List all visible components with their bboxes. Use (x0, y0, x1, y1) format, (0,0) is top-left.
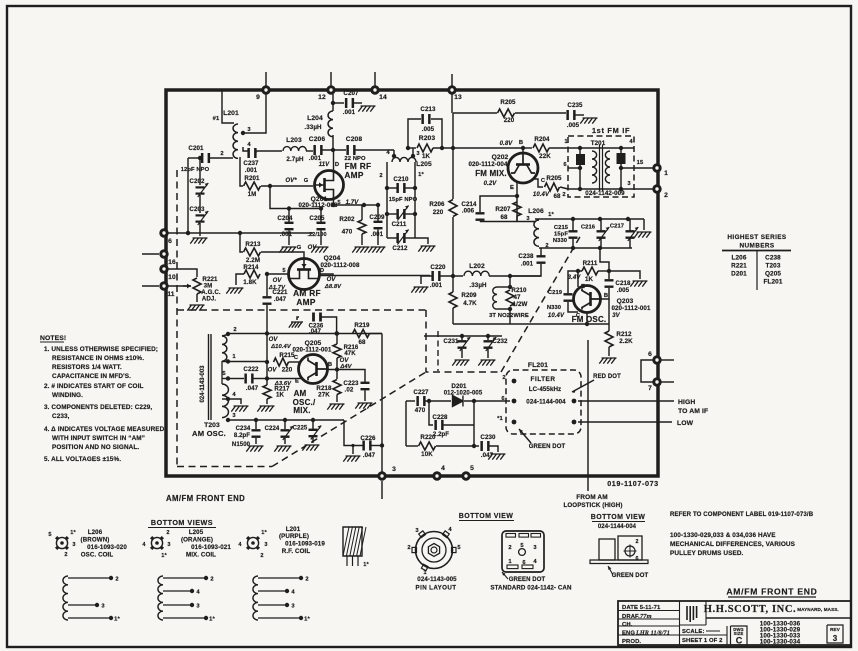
voltage at Q204 drain (324, 277, 342, 290)
svg-text:2: 2 (508, 545, 511, 551)
resistor R210 (506, 287, 527, 311)
terminal 3 (379, 466, 396, 479)
wire L201 pin3 (241, 94, 266, 135)
wire Q202 collector (534, 178, 546, 187)
wire bus down to C226 row (344, 420, 363, 446)
terminal 4 (434, 465, 445, 479)
wire L205 pin3 up (411, 148, 421, 158)
svg-text:SHEET 1 OF 2: SHEET 1 OF 2 (682, 638, 723, 644)
terminal 10 (161, 266, 176, 281)
voltage 10.4V under R205b (533, 192, 550, 198)
svg-text:2.2M: 2.2M (246, 257, 260, 264)
ground under R217 (257, 406, 274, 412)
label Q204 (320, 255, 360, 269)
svg-text:012-1020-005: 012-1020-005 (444, 391, 483, 397)
svg-text:GREEN DOT: GREEN DOT (529, 444, 566, 450)
wire C209 to ground (377, 230, 379, 246)
svg-text:C219: C219 (548, 290, 563, 296)
capacitor T201 right (block) (617, 153, 626, 164)
svg-text:C202: C202 (189, 178, 205, 185)
ground under C223 (355, 403, 372, 409)
svg-text:C218: C218 (615, 280, 631, 287)
FL201 pin 1 (497, 416, 516, 424)
svg-text:4. Δ INDICATES VOLTAGE MEASURE: 4. Δ INDICATES VOLTAGE MEASURED (44, 426, 165, 433)
svg-text:AM/FM FRONT END: AM/FM FRONT END (726, 587, 817, 597)
ground under C204 (279, 247, 296, 253)
resistor R206 (429, 200, 457, 217)
svg-text:3.4V: 3.4V (568, 275, 582, 281)
wire tuning cap bus (424, 334, 502, 338)
svg-text:C237: C237 (243, 160, 259, 167)
transformer T203 winding lower (222, 361, 228, 418)
wire C238 hang (540, 248, 542, 256)
label 024-1144-004 (filter) (598, 524, 637, 530)
wire tank to FM OSC base (600, 248, 609, 271)
svg-text:6: 6 (648, 351, 652, 358)
wire stub right of 7 (661, 381, 674, 383)
svg-text:024-1143-005: 024-1143-005 (417, 576, 457, 583)
label GREEN DOT (519, 429, 566, 450)
svg-text:B: B (328, 362, 332, 368)
svg-text:10.4V: 10.4V (533, 192, 550, 198)
wire C212 to ground (415, 238, 428, 244)
wire Q201 source (331, 200, 366, 208)
dashed gang linkage diagonal lower (272, 372, 426, 467)
svg-text:BOTTOM VIEWS: BOTTOM VIEWS (151, 518, 213, 527)
svg-text:ENG: ENG (622, 631, 635, 637)
svg-text:REV: REV (830, 627, 841, 632)
svg-text:68: 68 (358, 339, 366, 346)
variable capacitor C231 (443, 336, 470, 351)
resistor R218 (316, 370, 341, 399)
svg-text:1*: 1* (363, 562, 369, 568)
svg-text:R207: R207 (495, 206, 511, 213)
svg-text:TO AM IF: TO AM IF (678, 408, 708, 415)
svg-text:470: 470 (342, 229, 353, 236)
svg-text:RESISTORS 1/4 WATT.: RESISTORS 1/4 WATT. (52, 364, 122, 371)
wire C225 to ground (312, 438, 314, 444)
ground under R218 (327, 404, 344, 410)
svg-text:47K: 47K (344, 351, 356, 357)
wire L203 to C206 (306, 150, 313, 152)
terminal 5 (463, 465, 474, 479)
wire from AM loopstick (587, 340, 589, 491)
terminal 14 stub (374, 72, 376, 88)
svg-text:68: 68 (500, 214, 508, 221)
svg-text:220: 220 (433, 209, 444, 216)
svg-text:3T NO22WIRE: 3T NO22WIRE (489, 313, 529, 319)
IF can bottom view (502, 531, 544, 572)
svg-text:C228: C228 (432, 414, 448, 421)
title block date row (622, 605, 661, 611)
svg-text:1*: 1* (209, 617, 215, 623)
svg-text:2: 2 (115, 577, 118, 583)
svg-text:C231: C231 (443, 338, 459, 345)
svg-text:C210: C210 (393, 176, 409, 183)
svg-text:C211: C211 (392, 221, 407, 228)
resistor R214 (243, 264, 260, 286)
wire T201 top row (564, 139, 634, 150)
svg-text:MIX.: MIX. (293, 406, 310, 415)
svg-text:C201: C201 (188, 145, 204, 152)
wire Q202 base (521, 146, 525, 153)
wire left stub 16 (142, 253, 159, 255)
svg-text:R209: R209 (461, 292, 477, 299)
T203 tap 3 (226, 413, 237, 422)
svg-text:2.2K: 2.2K (619, 338, 633, 345)
resistor R202 (339, 205, 366, 236)
svg-text:CAPACITANCE IN MFD'S.: CAPACITANCE IN MFD'S. (52, 373, 131, 380)
wire to C235 (515, 112, 566, 114)
wire R216 to base (328, 358, 340, 372)
wire R204 to T201 (549, 147, 568, 149)
svg-text:4: 4 (441, 465, 445, 472)
svg-text:C227: C227 (413, 389, 429, 396)
svg-text:FL201: FL201 (528, 362, 548, 369)
wire C218 gnd branch (609, 271, 640, 279)
transistor Q203 FM OSC (574, 286, 601, 313)
svg-text:.005: .005 (567, 122, 580, 129)
dashed AM section top boundary (177, 309, 426, 311)
svg-text:016-1093-021: 016-1093-021 (191, 544, 231, 551)
T203 tap 5 (222, 371, 230, 381)
wire stub right of 6 (661, 359, 674, 361)
svg-text:D: D (320, 268, 324, 274)
transformer T203 core (209, 334, 212, 420)
capacitor C228 (432, 414, 449, 438)
svg-text:SCALE:: SCALE: (682, 629, 705, 635)
wire C202-C203 (199, 195, 201, 213)
capacitor C205 (307, 209, 326, 239)
svg-text:2: 2 (220, 151, 223, 157)
resistor R219 (353, 322, 371, 346)
wire base to C223 (337, 370, 365, 383)
ground under C224 (274, 446, 291, 452)
label 15pF NPO (389, 197, 418, 203)
svg-text:L201: L201 (223, 110, 239, 117)
wire R205b to T201 (560, 187, 568, 189)
svg-text:C: C (541, 178, 546, 184)
wire C226 gnd leg (351, 444, 354, 454)
wire C234 to ground (255, 438, 257, 444)
wire R211 left stub (568, 271, 578, 293)
wire C210 leads (387, 187, 415, 189)
svg-text:020-1112-001: 020-1112-001 (611, 305, 651, 312)
ground under C203 (190, 238, 207, 244)
refer to component text (670, 511, 814, 518)
ground left of C236 (289, 322, 303, 328)
svg-text:10: 10 (168, 274, 176, 281)
voltage OV 10.4V (269, 337, 292, 350)
svg-text:R213: R213 (245, 241, 261, 248)
svg-text:020-1112-008: 020-1112-008 (320, 262, 360, 269)
wire L201 pin4 to C237 (243, 147, 248, 151)
transistor Q201 FM RF AMP (315, 171, 344, 200)
node 4 label (247, 142, 251, 148)
ground right of tank (634, 232, 651, 238)
transformer T201 primary coil (592, 151, 597, 183)
svg-text:C235: C235 (567, 102, 583, 109)
svg-text:C208: C208 (346, 136, 363, 143)
FL201 pin 6 (501, 396, 516, 403)
svg-text:0.8V: 0.8V (500, 141, 514, 147)
svg-text:1*: 1* (548, 212, 554, 218)
label AM OSC MIX (293, 389, 316, 415)
svg-text:C233,: C233, (52, 413, 70, 420)
label Q202 (468, 154, 508, 178)
transformer T201 secondary coil (605, 151, 610, 183)
coil L204 from bus (304, 94, 333, 137)
svg-text:.001: .001 (430, 282, 443, 289)
resistor R212 (605, 331, 633, 347)
svg-text:OV: OV (327, 277, 337, 283)
svg-text:.001: .001 (343, 109, 356, 116)
svg-text:R205: R205 (546, 175, 562, 182)
label LOW (677, 420, 694, 427)
svg-text:2.7µH: 2.7µH (286, 156, 304, 163)
svg-text:10.4V: 10.4V (548, 313, 565, 319)
coil L205 (392, 157, 432, 168)
highest series numbers table (722, 234, 791, 290)
variable capacitor C232 (484, 336, 509, 351)
svg-text:C224: C224 (265, 426, 280, 432)
svg-text:L205: L205 (189, 529, 204, 536)
IF can green dot (502, 572, 546, 583)
capacitor C213 (420, 106, 436, 133)
svg-text:68: 68 (553, 193, 561, 200)
svg-text:1K: 1K (276, 392, 285, 399)
wire tank legs mid (387, 188, 415, 214)
label FROM AM LOOPSTICK (563, 494, 622, 509)
R.F. coil side view (343, 527, 369, 568)
wire R221 to ground (196, 294, 198, 302)
wire C203 to ground (199, 223, 201, 236)
svg-text:LOOPSTICK (HIGH): LOOPSTICK (HIGH) (563, 502, 622, 509)
L201 bottom view labels (279, 526, 325, 555)
ground right of C235 (580, 118, 597, 124)
label AM RF AMP (293, 288, 321, 307)
svg-text:C215: C215 (554, 225, 569, 231)
svg-text:C225: C225 (293, 426, 308, 432)
wire top 220 row (452, 92, 497, 113)
wire L204 bottom (332, 135, 334, 150)
svg-text:.047: .047 (246, 385, 259, 392)
capacitor C208 (344, 136, 366, 162)
svg-text:WINDING.: WINDING. (52, 392, 83, 399)
svg-text:2: 2 (664, 192, 668, 199)
resistor R220 (406, 434, 436, 458)
ground under R221 (187, 305, 204, 311)
wire C207 to ground (354, 102, 363, 104)
svg-text:OV: OV (273, 278, 283, 284)
svg-text:R220: R220 (420, 434, 436, 441)
svg-text:220: 220 (282, 367, 293, 374)
svg-text:C216: C216 (581, 225, 596, 231)
wire T201 tap 15 to terminal 1 (619, 160, 653, 170)
wire bracket 6-7 (641, 360, 653, 382)
capacitor C238 (518, 253, 545, 268)
label FM RF AMP (344, 161, 371, 180)
svg-text:C: C (576, 313, 581, 319)
FL201 pin low (572, 420, 577, 425)
svg-text:15pF NPO: 15pF NPO (389, 197, 418, 203)
resistor R207 (495, 202, 521, 222)
svg-text:L201: L201 (286, 526, 301, 533)
svg-text:*1: *1 (497, 416, 503, 422)
svg-text:GREEN DOT: GREEN DOT (509, 577, 546, 583)
svg-text:Q203: Q203 (617, 298, 634, 305)
svg-text:T203: T203 (766, 263, 781, 270)
dashed box FL201 (506, 370, 581, 434)
svg-text:H.H.SCOTT, INC.: H.H.SCOTT, INC. (704, 604, 797, 615)
terminal 2 (654, 186, 668, 199)
wire C227 to diode (425, 399, 451, 403)
transistor Q205 AM OSC MIX (299, 355, 328, 384)
resistor R213 (244, 241, 262, 264)
label G OV (297, 245, 318, 251)
svg-text:13: 13 (454, 94, 462, 101)
wire C221 hang (266, 274, 268, 296)
svg-text:1M: 1M (248, 191, 257, 198)
notes text block (40, 335, 165, 463)
wire vertical x382 (380, 334, 384, 473)
capacitor C210 (385, 176, 417, 193)
svg-text:.001: .001 (309, 155, 322, 162)
dashed AM section bottom boundary (177, 466, 272, 468)
svg-text:14: 14 (379, 94, 387, 101)
ground under R214 (226, 288, 243, 294)
svg-text:220: 220 (504, 117, 515, 124)
svg-text:8.2pF: 8.2pF (234, 433, 250, 439)
wire T201 pin3 to terminal 2 (634, 188, 653, 190)
svg-text:BOTTOM VIEW: BOTTOM VIEW (459, 513, 513, 520)
svg-text:FL201: FL201 (764, 279, 783, 286)
svg-text:C238: C238 (518, 253, 534, 260)
svg-text:(PURPLE): (PURPLE) (279, 533, 309, 540)
capacitor C221 (263, 289, 289, 305)
svg-text:Q202: Q202 (492, 154, 509, 161)
svg-text:#1: #1 (213, 116, 220, 122)
ground right of C207 (358, 106, 375, 112)
wire Q204 drain to mixer (320, 274, 334, 276)
svg-text:6: 6 (168, 238, 172, 245)
label R221 (201, 276, 221, 303)
wire L202 right (489, 274, 541, 278)
resistor R211 (582, 260, 598, 283)
wire terminal 10 to pot (168, 269, 197, 277)
wire R219 to vertical (370, 333, 383, 335)
svg-text:1*: 1* (418, 172, 424, 178)
wire R210 leg down (508, 276, 512, 289)
voltage OV 4V base (339, 358, 352, 370)
wire stub below terminal 3 (381, 481, 383, 499)
wire T201 right leg (620, 148, 622, 189)
scale row (682, 629, 720, 635)
svg-text:C213: C213 (420, 106, 436, 113)
svg-text:AMP: AMP (344, 170, 364, 180)
terminal 1 (654, 165, 668, 177)
svg-text:AM/FM FRONT END: AM/FM FRONT END (166, 494, 245, 503)
svg-text:L206: L206 (528, 208, 544, 215)
svg-text:2: 2 (210, 577, 213, 583)
wire C226 to vertical (371, 445, 382, 447)
capacitor C226 (360, 435, 376, 459)
svg-text:1/2W: 1/2W (513, 301, 528, 308)
wire R201 to Q201 gate (261, 184, 313, 188)
wire Q205 emitter (267, 379, 303, 385)
svg-text:C220: C220 (430, 264, 446, 271)
label Q204 S (282, 268, 324, 274)
svg-text:2: 2 (502, 375, 505, 381)
ground under C231 (452, 360, 469, 366)
capacitor C230 (480, 434, 496, 459)
voltage 0.2V at emitter (484, 181, 514, 191)
dwg size box (733, 627, 744, 646)
wire C222 leads (228, 378, 267, 380)
voltage OV* at gate (285, 178, 308, 184)
svg-text:LHR 11/8/71: LHR 11/8/71 (635, 630, 670, 637)
wire L205 pin2 down (379, 162, 387, 188)
svg-text:L202: L202 (469, 263, 485, 270)
resistor R209 (449, 292, 477, 308)
ground under C209 (368, 247, 385, 253)
svg-text:5: 5 (470, 465, 474, 472)
svg-text:C206: C206 (309, 136, 326, 143)
svg-text:L206: L206 (732, 255, 747, 262)
svg-text:0.2V: 0.2V (484, 181, 498, 187)
voltage at Q204 source (268, 278, 286, 291)
label AM/FM FRONT END under box (166, 494, 245, 503)
wire tank bottom bus (539, 243, 632, 250)
wire R212 leg (608, 299, 610, 331)
variable capacitor C225 (293, 420, 322, 440)
svg-text:470: 470 (415, 407, 426, 414)
wire into L206 (480, 216, 536, 222)
terminal 9 stub (265, 72, 267, 88)
svg-text:R201: R201 (244, 175, 260, 182)
svg-text:L205: L205 (416, 161, 432, 168)
svg-text:C209: C209 (369, 214, 385, 221)
wire C219 down (568, 302, 578, 312)
terminal 12 (318, 87, 334, 101)
svg-text:2: 2 (379, 173, 382, 179)
terminal 6b (648, 351, 660, 363)
terminal 13 (449, 87, 462, 101)
wire R218 to ground (336, 395, 338, 403)
svg-text:PULLEY DRUMS USED.: PULLEY DRUMS USED. (670, 550, 744, 557)
svg-text:3: 3 (72, 542, 75, 548)
wire long vertical R206 (452, 113, 454, 199)
svg-text:AMP: AMP (296, 297, 316, 307)
capacitor C206 (309, 136, 326, 162)
ground T203 pin4 (231, 406, 248, 412)
svg-text:AM: AM (294, 389, 307, 398)
svg-text:R.F. COIL: R.F. COIL (282, 548, 311, 555)
svg-text:5: 5 (48, 532, 51, 538)
sheet row (682, 638, 723, 644)
svg-text:1st FM IF: 1st FM IF (592, 126, 630, 135)
svg-text:Q204: Q204 (324, 255, 341, 262)
svg-text:G: G (304, 178, 309, 184)
svg-text:1*: 1* (304, 617, 310, 623)
svg-text:.001: .001 (245, 167, 258, 174)
resistor R215 (268, 352, 295, 374)
svg-text:1K: 1K (585, 276, 594, 283)
label Q203 (611, 298, 651, 319)
T203 tap 2 (226, 327, 237, 336)
svg-text:NUMBERS: NUMBERS (739, 243, 774, 250)
schematic enclosure border (166, 90, 658, 476)
